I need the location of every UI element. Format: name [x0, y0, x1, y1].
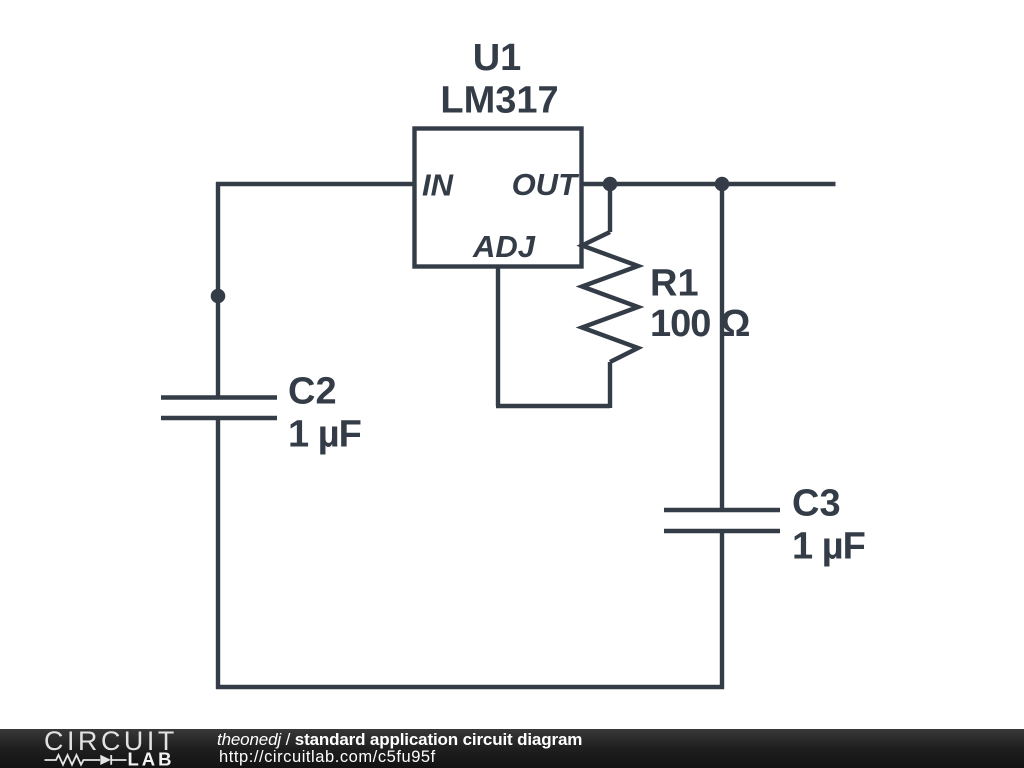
wire bottom ground rail — [216, 685, 724, 689]
label C2 designator — [288, 371, 337, 413]
capacitor C3 top plate — [664, 508, 780, 512]
svg-text:OUT: OUT — [512, 167, 581, 202]
svg-text:1 µF: 1 µF — [792, 526, 865, 568]
wire ADJ net: vertical from U1 ADJ pin — [496, 266, 500, 406]
CircuitLab logo wordmark CIRCUIT — [44, 726, 178, 756]
wire C3 bottom lead — [720, 531, 724, 689]
svg-text:1 µF: 1 µF — [288, 414, 361, 456]
svg-text:http://circuitlab.com/c5fu95f: http://circuitlab.com/c5fu95f — [219, 748, 436, 766]
svg-text:theonedj / standard applicatio: theonedj / standard application circuit … — [217, 730, 582, 749]
node dot on OUT net at R1 branch — [603, 177, 618, 192]
svg-text:IN: IN — [422, 168, 454, 203]
wire R1 top lead from OUT node — [608, 184, 612, 232]
svg-text:R1: R1 — [650, 263, 699, 305]
wire R1 bottom lead — [608, 362, 612, 408]
footer title: author / schematic name — [217, 730, 582, 749]
wire C3 top lead from OUT net — [720, 184, 724, 510]
svg-text:C2: C2 — [288, 371, 337, 413]
CircuitLab logo resistor-diode glyph — [45, 755, 127, 765]
label C3 designator — [792, 483, 841, 525]
svg-text:U1: U1 — [473, 37, 522, 79]
svg-text:LM317: LM317 — [440, 80, 558, 122]
capacitor C2 top plate — [161, 395, 277, 399]
svg-text:ADJ: ADJ — [472, 229, 536, 264]
pin label ADJ — [472, 229, 536, 264]
footer black bar — [0, 729, 1024, 768]
wire IN net: left vertical down to C2 — [216, 182, 220, 397]
node dot on OUT net at C3 branch — [715, 177, 730, 192]
label C3 value 1 uF — [792, 526, 865, 568]
label U1 value LM317 — [440, 80, 558, 122]
capacitor C2 bottom plate — [161, 416, 277, 420]
wire ADJ net: bottom horizontal to R1 bottom — [496, 404, 610, 408]
svg-text:LAB: LAB — [128, 749, 175, 768]
resistor R1 zigzag — [582, 232, 638, 362]
svg-text:100 Ω: 100 Ω — [650, 303, 749, 345]
IC U1 LM317 body — [415, 129, 582, 267]
wire IN net: left horizontal from C2 branch to U1 IN pin — [216, 182, 414, 186]
label R1 designator — [650, 263, 699, 305]
node dot on IN net above C2 — [211, 289, 226, 304]
pin label OUT — [512, 167, 581, 202]
label C2 value 1 uF — [288, 414, 361, 456]
wire C2 bottom lead — [216, 418, 220, 689]
CircuitLab logo wordmark LAB — [128, 749, 175, 768]
capacitor C3 bottom plate — [664, 529, 780, 533]
pin label IN — [422, 168, 454, 203]
footer url — [219, 748, 436, 766]
label U1 designator — [473, 37, 522, 79]
label R1 value 100 ohm — [650, 303, 749, 345]
svg-text:C3: C3 — [792, 483, 841, 525]
wire OUT net: from U1 OUT pin to right edge — [581, 182, 836, 186]
